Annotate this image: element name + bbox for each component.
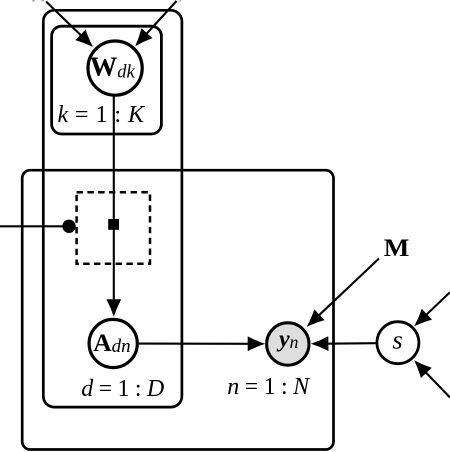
svg-text:k = 1 : K: k = 1 : K: [58, 102, 146, 128]
svg-text:d = 1 : D: d = 1 : D: [81, 376, 164, 402]
svg-text:n = 1 : N: n = 1 : N: [227, 374, 311, 400]
svg-text:M: M: [384, 235, 410, 262]
svg-text:s: s: [392, 325, 402, 355]
